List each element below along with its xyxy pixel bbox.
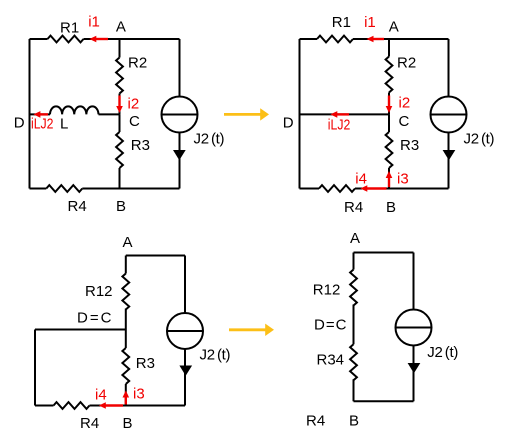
svg-text:R3: R3: [131, 137, 150, 154]
wire node A to current source top: [448, 39, 450, 97]
svg-text:R4: R4: [80, 415, 99, 432]
wire D=C stub to left: [35, 329, 126, 331]
inductor L: [50, 106, 98, 114]
svg-text:R3: R3: [400, 137, 419, 154]
svg-text:B: B: [116, 198, 126, 215]
wire R12 to node D=C: [353, 305, 355, 345]
wire inductor to node C: [99, 113, 120, 115]
wire R3 to node B: [119, 168, 121, 189]
wire node C down to R3: [388, 114, 390, 132]
wire node A down to R2: [119, 39, 121, 58]
arrow i2 (top-left): [118, 96, 120, 107]
wire bottom-left lead to R4: [300, 188, 320, 190]
wire node C down to R3: [119, 114, 121, 132]
wire R4 to node B and right corner: [82, 188, 179, 190]
current source arrowhead: [179, 366, 192, 376]
wire D to inductor: [30, 113, 51, 115]
svg-text:J2(t): J2(t): [194, 131, 225, 148]
resistor R12: [350, 270, 357, 306]
wire current source to bottom: [184, 349, 186, 406]
resistor R1: [48, 36, 84, 43]
svg-text:R3: R3: [136, 355, 155, 372]
svg-text:iLJ2: iLJ2: [31, 115, 54, 132]
svg-text:i3: i3: [133, 386, 145, 403]
arrow i2 (top-right): [388, 96, 390, 107]
wire R3 to node B: [388, 168, 390, 189]
wire R12 to node D=C: [125, 309, 127, 330]
wire bottom-left lead to R4: [30, 188, 47, 190]
svg-text:R2: R2: [397, 55, 416, 72]
wire D to C: [300, 113, 390, 115]
wire node D=C down to R3: [125, 330, 127, 349]
arrow i4 (bottom-left): [105, 404, 123, 406]
wire node A top: [354, 252, 414, 254]
arrow i1 (top-right): [373, 38, 385, 40]
svg-text:B: B: [349, 413, 359, 430]
resistor R4: [54, 402, 90, 409]
svg-text:i4: i4: [95, 386, 107, 403]
wire R34 to node B: [353, 379, 355, 401]
svg-text:D: D: [283, 114, 294, 131]
svg-text:R1: R1: [60, 20, 79, 37]
svg-text:i4: i4: [355, 171, 367, 188]
svg-text:B: B: [123, 415, 133, 432]
wire R4 to node B and right corner: [90, 405, 186, 407]
wire node A to current source top: [179, 39, 181, 97]
svg-text:R4: R4: [68, 198, 87, 215]
svg-text:i2: i2: [128, 95, 140, 112]
wire current source to bottom: [448, 133, 450, 189]
arrow i3 (top-right): [388, 177, 390, 187]
wire node A to current source top: [413, 253, 415, 310]
wire node A down to R2: [388, 39, 390, 57]
resistor R34: [350, 344, 357, 380]
svg-text:L: L: [60, 115, 68, 132]
current source arrowhead: [173, 150, 186, 160]
wire left side D column: [29, 39, 31, 189]
wire top-left lead to R1: [30, 38, 48, 40]
resistor R3: [122, 348, 129, 384]
wire left side D column: [299, 39, 301, 189]
wire R4 to node B and right corner: [355, 188, 449, 190]
yellow arrow top: [224, 113, 261, 116]
svg-text:A: A: [116, 19, 126, 36]
wire R2 to node C: [119, 94, 121, 115]
svg-text:A: A: [123, 234, 133, 251]
svg-text:C: C: [129, 113, 140, 130]
wire R2 to node C: [388, 93, 390, 115]
wire left outer column: [34, 330, 36, 406]
current source J2(t) chord: [162, 114, 198, 116]
current source J2(t) chord: [396, 327, 432, 329]
wire node A down to R12: [125, 256, 127, 274]
svg-text:C: C: [399, 113, 410, 130]
wire R3 to node B: [125, 384, 127, 406]
resistor R3: [116, 132, 123, 168]
wire node A down to R12: [353, 253, 355, 270]
wire top-left lead to R1: [300, 38, 318, 40]
resistor R4: [46, 185, 82, 192]
svg-text:D=C: D=C: [77, 309, 113, 326]
arrow i3 (bottom-left): [125, 397, 127, 405]
svg-text:i1: i1: [364, 14, 376, 31]
wire R1 to node A: [84, 38, 180, 40]
resistor R1: [317, 36, 353, 43]
svg-text:i3: i3: [397, 171, 409, 188]
svg-text:R12: R12: [85, 283, 113, 300]
current source J2(t) circle: [162, 97, 198, 133]
wire R1 to node A: [353, 38, 449, 40]
wire current source to bottom: [179, 133, 181, 189]
svg-text:J2(t): J2(t): [200, 346, 231, 363]
arrow iLJ2 (top-right): [337, 113, 350, 115]
svg-text:J2(t): J2(t): [427, 344, 458, 361]
wire bottom-left lead to R4: [35, 405, 54, 407]
resistor R3: [386, 132, 393, 168]
resistor R2: [386, 57, 393, 93]
svg-text:A: A: [389, 19, 399, 36]
current source arrowhead: [443, 150, 456, 160]
current source J2(t) circle: [167, 313, 203, 349]
svg-text:D: D: [14, 114, 25, 131]
svg-text:D=C: D=C: [314, 317, 347, 334]
svg-text:i2: i2: [399, 95, 411, 112]
svg-text:R2: R2: [128, 55, 147, 72]
svg-text:i1: i1: [88, 13, 100, 30]
current source J2(t) chord: [167, 330, 203, 332]
current source J2(t) circle: [431, 97, 467, 133]
svg-text:R34: R34: [317, 351, 345, 368]
wire bottom: [354, 400, 414, 402]
arrow i1 (top-left): [95, 38, 108, 40]
resistor R2: [116, 58, 123, 94]
arrow i4 (top-right): [367, 187, 387, 189]
svg-text:A: A: [350, 230, 360, 247]
current source J2(t) circle: [396, 310, 432, 346]
svg-text:R12: R12: [313, 282, 341, 299]
resistor R12: [122, 274, 129, 310]
yellow arrow bottom: [229, 328, 266, 331]
svg-text:R1: R1: [332, 14, 351, 31]
wire node A to current source top: [184, 256, 186, 314]
svg-text:R4: R4: [344, 199, 363, 216]
svg-text:J2(t): J2(t): [464, 131, 495, 148]
wire node A top: [126, 255, 185, 257]
resistor R4: [319, 185, 355, 192]
current source J2(t) chord: [431, 114, 467, 116]
svg-text:R4: R4: [306, 413, 325, 430]
arrow iLJ2 (top-left): [40, 113, 49, 115]
svg-text:B: B: [386, 199, 396, 216]
wire current source to bottom: [413, 346, 415, 402]
current source arrowhead: [408, 363, 421, 373]
svg-text:iLJ2: iLJ2: [328, 117, 351, 134]
